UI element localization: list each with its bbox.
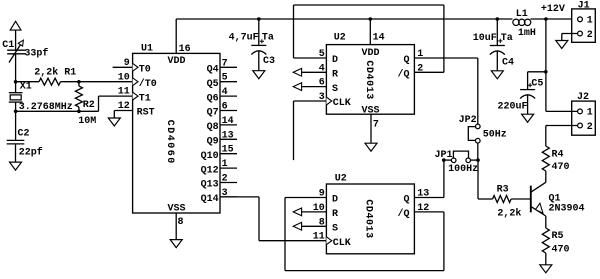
wire 100Hz feed to JP1 (444, 159, 452, 161)
svg-text:U2: U2 (334, 33, 346, 44)
svg-text:R: R (332, 70, 338, 81)
svg-text:Q6: Q6 (207, 93, 219, 104)
svg-text:2N3904: 2N3904 (549, 204, 585, 215)
resistor R1 (16, 81, 39, 83)
jumper JP2 50Hz (476, 124, 481, 129)
ground under U2a VSS (365, 143, 377, 151)
node C3 rail junction (257, 17, 261, 21)
svg-text:5: 5 (222, 73, 228, 84)
svg-text:CD4013: CD4013 (363, 60, 374, 99)
U2b pin 8 S (293, 222, 301, 230)
svg-text:8: 8 (319, 217, 325, 228)
wire J2 pin2 to R4 (546, 125, 578, 127)
wire Q1 emitter to R5 (545, 216, 547, 228)
svg-text:U1: U1 (141, 44, 153, 55)
svg-text:U2: U2 (335, 173, 347, 184)
wire bottom row to pin11 riser (16, 110, 99, 112)
wire J1 pin2 to ground (562, 33, 578, 35)
svg-text:Ta: Ta (501, 33, 513, 44)
U1 pin 4 Q6 (220, 95, 237, 97)
U1 pin 10 /T0 (133, 78, 138, 86)
svg-text:470: 470 (552, 162, 570, 173)
crystal X1 (9, 92, 23, 94)
svg-text:C2: C2 (18, 128, 30, 139)
svg-text:100Hz: 100Hz (448, 164, 478, 175)
svg-text:C3: C3 (263, 56, 275, 67)
svg-text:16: 16 (179, 44, 191, 55)
svg-text:15: 15 (222, 145, 234, 156)
svg-text:10M: 10M (78, 116, 96, 127)
svg-text:1mH: 1mH (518, 28, 536, 39)
svg-text:L1: L1 (516, 9, 528, 20)
wire +12V power rail (176, 18, 512, 20)
svg-text:1: 1 (587, 108, 593, 119)
U1 pin 3 Q14 (220, 196, 237, 198)
J1 pin 1 (578, 17, 583, 22)
capacitor C5 220uF (520, 89, 535, 91)
U2a pin 4 R (293, 68, 301, 76)
node R1-R2 junction (77, 80, 81, 84)
U1 pin 5 Q5 (220, 81, 237, 83)
node U2a VDD rail junction (369, 17, 373, 21)
node X1-top junction (14, 80, 18, 84)
connector J1 box (572, 9, 596, 42)
svg-text:J2: J2 (577, 92, 589, 103)
node +12V branch junction (544, 17, 548, 21)
svg-text:R4: R4 (552, 149, 564, 160)
svg-text:+12V: +12V (541, 4, 565, 15)
svg-text:C5: C5 (531, 79, 543, 90)
svg-text:Q10: Q10 (201, 151, 219, 162)
svg-text:CLK: CLK (333, 98, 351, 109)
ground under C4 (496, 51, 498, 71)
svg-text:CD4013: CD4013 (362, 199, 373, 238)
wire +12V vertical rail (545, 19, 547, 111)
op-amp U2b CD4013 box (326, 184, 414, 254)
resistor R4 (542, 146, 549, 171)
svg-text:7: 7 (222, 58, 228, 69)
resistor R5 (542, 228, 549, 253)
ground under C5 (527, 95, 529, 114)
U2a pin 3 CLK (326, 97, 331, 105)
wire U2b D input (285, 197, 326, 199)
svg-text:VDD: VDD (361, 48, 379, 59)
wire C1 to X1 node (15, 54, 17, 93)
svg-text:2: 2 (587, 122, 593, 133)
svg-text:10: 10 (313, 203, 325, 214)
wire JP1 to select node (471, 159, 479, 161)
svg-text:7: 7 (373, 119, 379, 130)
svg-text:/T0: /T0 (139, 78, 157, 90)
svg-text:Q7: Q7 (207, 108, 219, 119)
J2 pin 1 (578, 109, 583, 114)
wire U1 VSS (175, 213, 177, 240)
wire U1 VDD to rail (175, 19, 177, 53)
svg-text:2: 2 (587, 30, 593, 41)
svg-text:Q5: Q5 (207, 79, 219, 90)
svg-text:6: 6 (319, 78, 325, 89)
svg-text:S: S (332, 224, 338, 235)
svg-text:Q13: Q13 (201, 180, 219, 191)
ground under C2 (15, 144, 17, 162)
svg-text:CLK: CLK (333, 238, 351, 249)
wire arrow to C1 top plate (15, 30, 17, 50)
resistor R2 (78, 82, 80, 86)
wire U2a VSS (370, 114, 372, 143)
svg-text:22pf: 22pf (19, 146, 43, 158)
wire J2 pin1 to +12V (546, 110, 578, 112)
wire riser to T1 (98, 96, 100, 111)
svg-text:4: 4 (222, 87, 228, 98)
svg-text:D: D (332, 195, 338, 206)
svg-text:470: 470 (552, 245, 570, 256)
svg-text:11: 11 (313, 232, 325, 243)
svg-text:D: D (332, 55, 338, 66)
inductor L1 (513, 19, 519, 25)
svg-text:13: 13 (222, 130, 234, 141)
svg-text:T0: T0 (139, 65, 151, 76)
node X1-bottom junction (14, 110, 18, 114)
wire U2a CLK net (293, 101, 295, 160)
U2a pin 6 S (293, 83, 301, 91)
op-amp U2a CD4013 box (326, 45, 414, 115)
svg-text:Q12: Q12 (201, 165, 219, 176)
svg-text:S: S (332, 84, 338, 95)
svg-text:Q8: Q8 (207, 122, 219, 133)
svg-text:4,7uF: 4,7uF (229, 32, 259, 43)
svg-text:10: 10 (118, 72, 130, 83)
svg-text:Q: Q (403, 55, 409, 66)
capacitor C1 (variable trimmer) (7, 49, 26, 51)
wire Q14 to U2b CLK (220, 196, 259, 198)
connector J2 box (572, 101, 596, 135)
svg-text:2: 2 (222, 174, 228, 185)
capacitor C2 (7, 139, 25, 141)
wire U2a VDD (369, 19, 371, 45)
svg-text:Q: Q (403, 195, 409, 206)
U1 pin 11 T1 (133, 92, 138, 100)
node C5 branch junction (544, 70, 548, 74)
svg-text:8: 8 (178, 217, 184, 228)
capacitor C3 4.7uF (258, 19, 260, 45)
svg-text:RST: RST (137, 108, 155, 119)
svg-text:2,2k R1: 2,2k R1 (34, 66, 76, 78)
svg-text:220uF: 220uF (498, 101, 528, 112)
svg-text:R5: R5 (552, 231, 564, 242)
svg-text:C1: C1 (2, 40, 14, 51)
U1 pin 13 Q9 (220, 138, 237, 140)
J1 pin 2 (578, 31, 583, 36)
U1 pin 1 Q12 (220, 167, 237, 169)
svg-text:14: 14 (222, 116, 234, 127)
wire crystal to bottom node (15, 102, 17, 140)
wire U2a D input (294, 57, 327, 59)
svg-text:Ta: Ta (262, 32, 274, 43)
svg-text:2,2k: 2,2k (497, 208, 521, 220)
wire U2b Q output to 100Hz net (414, 197, 444, 199)
svg-text:10uF: 10uF (473, 33, 497, 44)
wire RST stub (114, 110, 132, 112)
svg-text:12: 12 (118, 101, 130, 112)
wire U2a feedback /Q to D (414, 71, 444, 73)
svg-text:R3: R3 (497, 184, 509, 195)
svg-text:/Q: /Q (397, 69, 409, 81)
U1 pin 7 Q4 (220, 66, 237, 68)
U2b pin 10 R (293, 208, 301, 216)
svg-text:Q9: Q9 (207, 137, 219, 148)
svg-text:1: 1 (587, 16, 593, 27)
svg-text:50Hz: 50Hz (483, 129, 507, 140)
svg-text:R: R (332, 209, 338, 220)
svg-text:9: 9 (124, 58, 130, 69)
U1 pin 2 Q13 (220, 182, 237, 184)
jumper JP1 100Hz (451, 158, 456, 163)
svg-text:CD4060: CD4060 (164, 120, 175, 165)
U1 pin 15 Q10 (220, 153, 237, 155)
node C4 rail junction (496, 17, 500, 21)
svg-text:J1: J1 (578, 1, 590, 12)
svg-text:VDD: VDD (167, 56, 185, 67)
capacitor C4 10uF (496, 19, 498, 46)
ground under R5 (540, 265, 552, 273)
svg-text:X1: X1 (20, 82, 32, 93)
svg-text:11: 11 (118, 87, 130, 98)
svg-text:14: 14 (373, 33, 385, 44)
op-amp U1 CD4060 box (133, 53, 220, 213)
U2b pin 11 CLK (326, 237, 331, 245)
wire JP2 to select node (477, 143, 479, 160)
wire select node down (477, 160, 479, 199)
resistor R3 (478, 198, 493, 200)
wire U2a Q output (414, 57, 477, 59)
ground under U1 VSS (170, 240, 182, 248)
U1 pin 14 Q8 (220, 124, 237, 126)
svg-text:4: 4 (319, 63, 325, 74)
svg-text:/Q: /Q (397, 208, 409, 220)
ground at J1 pin2 (556, 41, 568, 49)
svg-text:33pf: 33pf (24, 47, 48, 59)
U1 pin 6 Q7 (220, 110, 237, 112)
svg-text:Q4: Q4 (207, 65, 219, 76)
transistor Q1 2N3904 (530, 186, 532, 213)
node A top arrow (up triangle above C1) (10, 21, 21, 30)
svg-text:3: 3 (319, 92, 325, 103)
J2 pin 2 (578, 123, 583, 128)
node R2-bottom junction (77, 110, 81, 114)
svg-text:JP2: JP2 (459, 115, 477, 126)
node JP1 junction (442, 158, 446, 162)
svg-text:6: 6 (222, 102, 228, 113)
svg-text:R2: R2 (83, 100, 95, 111)
svg-text:T1: T1 (139, 93, 151, 104)
node select junction (476, 158, 480, 162)
wire T0 stub (113, 66, 133, 68)
wire C5 branch (528, 71, 546, 73)
svg-text:C4: C4 (502, 58, 514, 69)
U1 pin 9 T0 (133, 63, 138, 71)
svg-text:1: 1 (222, 159, 228, 170)
svg-text:Q14: Q14 (201, 194, 219, 205)
ground under C3 (258, 51, 260, 70)
ground at RST (113, 111, 115, 119)
wire U2b feedback /Q to D (414, 211, 444, 213)
